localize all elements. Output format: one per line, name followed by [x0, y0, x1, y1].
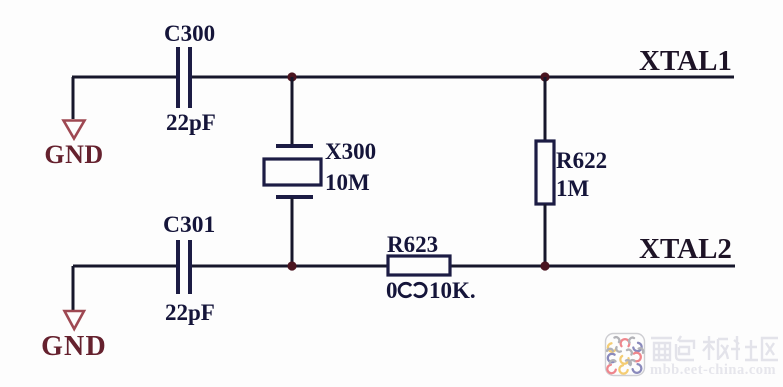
svg-text:0: 0 [386, 278, 398, 303]
resistor R623 [388, 256, 450, 275]
node junction dot top at X300 [287, 72, 296, 81]
watermark logo arcs [607, 337, 643, 373]
svg-text:GND: GND [41, 331, 107, 362]
label X300 value 10M [325, 170, 370, 195]
wire X300 top lead [291, 77, 294, 145]
watermark logo rounded square [606, 334, 645, 376]
node junction dot bottom at R622 [540, 261, 549, 270]
net label XTAL2 [639, 233, 732, 265]
svg-text:C300: C300 [164, 21, 215, 46]
wire GND2 stem [72, 266, 75, 310]
svg-text:GND: GND [44, 140, 103, 169]
net label XTAL1 [639, 45, 732, 77]
wire top rail left segment (GND1 to C300) [72, 76, 178, 79]
label C300 designator [164, 21, 215, 46]
node junction dot bottom at X300 [287, 261, 296, 270]
ground GND1 symbol [64, 121, 85, 139]
capacitor C300 [178, 47, 190, 108]
svg-text:10M: 10M [325, 170, 370, 195]
svg-text:mbb.eet-china.com: mbb.eet-china.com [650, 362, 776, 378]
watermark url text [650, 362, 776, 378]
label C301 value 22pF [165, 300, 215, 325]
ground GND2 symbol [65, 311, 85, 329]
svg-text:R623: R623 [387, 232, 438, 257]
wire GND1 stem [72, 77, 75, 119]
label R623 value 0~10K [386, 278, 476, 303]
label R622 value 1M [556, 176, 590, 201]
svg-text:R622: R622 [556, 148, 607, 173]
svg-text:XTAL1: XTAL1 [639, 45, 732, 77]
label X300 designator [325, 139, 376, 164]
label R623 designator [387, 232, 438, 257]
label R622 designator [556, 148, 607, 173]
wire bottom rail left segment (GND2 to C301) [73, 265, 178, 268]
svg-text:10K.: 10K. [429, 278, 476, 303]
svg-text:22pF: 22pF [165, 300, 215, 325]
板 [703, 336, 728, 360]
capacitor C301 [178, 240, 190, 294]
wire R622 top lead [544, 77, 547, 142]
label C300 value 22pF [166, 110, 216, 135]
node junction dot top at R622 [540, 72, 549, 81]
svg-text:1M: 1M [556, 176, 590, 201]
社 [731, 336, 758, 360]
区 [762, 338, 778, 360]
svg-text:C301: C301 [163, 212, 215, 238]
面 [651, 338, 672, 360]
包 [676, 336, 694, 360]
ground GND2 label [41, 331, 107, 362]
ground GND1 label [44, 140, 103, 169]
label C301 designator [163, 212, 215, 238]
watermark chinese text 面包板社区 [651, 336, 778, 360]
svg-text:22pF: 22pF [166, 110, 216, 135]
resistor R622 [536, 141, 554, 204]
wire X300 bottom lead [291, 198, 294, 266]
crystal X300 [264, 146, 321, 197]
wire R622 bottom lead [544, 204, 547, 266]
wire bottom rail right segment (R623 to XTAL2 end) [450, 265, 735, 268]
wire bottom rail middle segment (C301 to R623) [190, 265, 388, 268]
svg-text:X300: X300 [325, 139, 376, 164]
svg-text:XTAL2: XTAL2 [639, 233, 732, 265]
wire top rail right segment (C300 to XTAL1 end) [190, 76, 734, 79]
